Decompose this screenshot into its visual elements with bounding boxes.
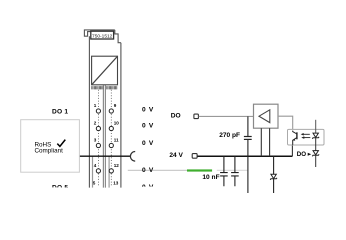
svg-text:4: 4 <box>94 163 97 168</box>
0 V rail grey (through label) <box>128 169 187 171</box>
module left edge <box>88 36 90 187</box>
green highlighted wire <box>187 169 212 171</box>
capacitor 10 nF (1) <box>220 156 228 186</box>
svg-text:10 nF: 10 nF <box>202 174 219 181</box>
amplifier legs <box>261 128 269 156</box>
svg-text:12: 12 <box>114 163 120 168</box>
svg-text:0 V: 0 V <box>142 140 154 147</box>
terminal 3 <box>96 143 100 147</box>
svg-text:DO: DO <box>171 112 181 119</box>
module 750-1512 top latch outline <box>84 30 114 36</box>
svg-text:9: 9 <box>114 103 117 108</box>
amplifier U1 <box>254 104 279 128</box>
RoHS checkmark <box>57 140 65 147</box>
svg-text:Compliant: Compliant <box>35 148 64 155</box>
light arrow lower <box>304 137 310 139</box>
wire junction down to bottom <box>247 140 249 193</box>
svg-text:750-1512: 750-1512 <box>92 33 113 39</box>
24V rail <box>197 155 292 157</box>
module right edge <box>120 43 122 188</box>
wire RoHS box to jumper contact <box>79 155 130 157</box>
svg-text:11: 11 <box>114 138 119 143</box>
24V terminal square <box>192 154 197 159</box>
DO terminal square <box>194 114 199 119</box>
svg-text:13: 13 <box>113 180 119 185</box>
svg-text:0 V: 0 V <box>142 107 154 114</box>
module top right step <box>115 30 121 43</box>
svg-text:10: 10 <box>114 121 120 126</box>
amplifier output wire <box>278 116 293 129</box>
terminal 4 <box>96 169 100 173</box>
svg-text:3: 3 <box>94 138 97 143</box>
svg-text:0 V: 0 V <box>142 167 154 174</box>
opto LED <box>315 120 317 133</box>
svg-text:1: 1 <box>94 103 97 108</box>
svg-text:0 V: 0 V <box>142 123 154 130</box>
terminal dashed rail left column <box>97 90 99 186</box>
svg-text:270 pF: 270 pF <box>219 132 240 139</box>
diagonal <box>92 57 117 84</box>
RoHS box <box>21 120 80 173</box>
module center divider <box>103 85 105 187</box>
connector hatch <box>92 86 117 89</box>
svg-text:24 V: 24 V <box>169 152 183 159</box>
zener diode D1 <box>273 156 275 174</box>
capacitor 10 nF (2) <box>231 156 239 186</box>
function block with diagonal <box>92 56 118 85</box>
terminal 10 <box>109 126 113 130</box>
jumper contact arc <box>130 152 135 162</box>
terminal dashed rail right column <box>110 90 112 186</box>
terminal 2 <box>96 126 100 130</box>
optocoupler box <box>288 129 325 145</box>
grey power bus right <box>108 156 110 187</box>
svg-text:DO 1: DO 1 <box>52 109 68 116</box>
phototransistor Q1 <box>296 132 298 139</box>
label box 750-1512 <box>91 31 114 39</box>
terminal 12 <box>109 169 113 173</box>
svg-text:2: 2 <box>94 121 97 126</box>
bottom crop <box>46 187 80 193</box>
terminal 1 <box>96 109 100 113</box>
DO wire <box>199 115 254 117</box>
svg-text:DO: DO <box>297 151 306 158</box>
light arrow upper <box>303 133 309 135</box>
grey power bus left <box>92 156 94 187</box>
terminal 9 <box>109 109 113 113</box>
svg-text:5: 5 <box>93 180 96 185</box>
terminal 11 <box>109 143 113 147</box>
rail corner up to optocoupler <box>291 145 293 156</box>
